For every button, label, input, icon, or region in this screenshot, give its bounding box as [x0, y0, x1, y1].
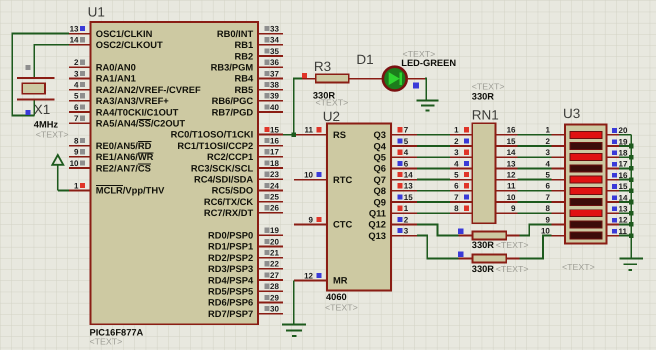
U1 pin 19 (RD0/PSP0) stub + number — [208, 226, 283, 240]
svg-text:1: 1 — [545, 126, 550, 135]
junction node bus row 12 — [629, 222, 634, 227]
svg-text:11: 11 — [507, 182, 516, 191]
svg-text:40: 40 — [270, 103, 279, 112]
resistor network RN1 body — [472, 123, 495, 223]
wire U2 pin12 (MR) to ground — [293, 280, 295, 324]
svg-text:14: 14 — [507, 148, 516, 157]
svg-text:9: 9 — [74, 148, 79, 157]
svg-text:RB6/PGC: RB6/PGC — [212, 96, 254, 106]
wire U3 pin 15 to ground bus — [619, 190, 631, 192]
svg-text:19: 19 — [270, 226, 279, 235]
svg-text:RB4: RB4 — [234, 74, 253, 84]
resistor RA (330R upper) left stub — [459, 235, 473, 237]
svg-text:6: 6 — [545, 182, 550, 191]
junction node RC0/RS — [291, 132, 296, 137]
wire U3 pin 20 to ground bus — [619, 134, 631, 136]
U1 pin 27 (RD4/PSP4) stub + number — [208, 271, 283, 285]
wire U2 Q11 to RN1 pin 8 — [417, 212, 450, 214]
svg-text:<TEXT>: <TEXT> — [90, 337, 123, 347]
RN1 pin 15 stub + number — [496, 137, 518, 146]
junction node bus row 11 — [629, 233, 634, 238]
node indicator D1 cathode (blue) — [413, 82, 419, 88]
svg-text:<TEXT>: <TEXT> — [496, 240, 529, 250]
U2 pin 11 (RS) stub + number — [294, 126, 346, 140]
node indicator OSC2 (gray) — [26, 65, 31, 70]
U2 pin 10 (RTC) stub + number — [294, 171, 353, 185]
svg-text:3: 3 — [404, 227, 409, 236]
svg-text:<TEXT>: <TEXT> — [472, 81, 505, 91]
U3 pin 14 stub + number — [607, 193, 628, 202]
svg-text:6: 6 — [454, 182, 459, 191]
svg-text:14: 14 — [619, 193, 628, 202]
svg-text:15: 15 — [619, 182, 628, 191]
svg-text:16: 16 — [270, 137, 279, 146]
svg-text:17: 17 — [619, 160, 628, 169]
svg-text:15: 15 — [404, 193, 413, 202]
svg-text:9: 9 — [511, 204, 516, 213]
U3 LED bar 10 (off) — [570, 232, 602, 239]
svg-text:<TEXT>: <TEXT> — [316, 98, 349, 108]
svg-text:19: 19 — [619, 137, 628, 146]
U1 pin 16 (RC1/T1OSI/CCP2) stub + number — [177, 137, 283, 151]
wire resistor RA to U3 pin9 — [520, 224, 552, 235]
svg-text:RC5/SDO: RC5/SDO — [212, 186, 254, 196]
svg-text:10: 10 — [304, 171, 313, 180]
svg-text:10: 10 — [541, 227, 550, 236]
overline WR on RE1 name — [138, 152, 154, 154]
svg-text:26: 26 — [270, 204, 279, 213]
svg-text:OSC1/CLKIN: OSC1/CLKIN — [96, 29, 153, 39]
wire RN1 pin 12 to U3 pin 5 — [518, 179, 552, 181]
U1 pin 23 (RC4/SDI/SDA) stub + number — [194, 170, 283, 184]
U1 pin 38 (RB5) stub + number — [234, 81, 283, 95]
wire U2 Q5 to RN1 pin 3 — [417, 156, 450, 158]
U1 pin 29 (RD6/PSP6) stub + number — [208, 293, 283, 307]
wire OSC1: U1 pin13 to crystal bottom — [12, 34, 69, 116]
resistor RB body — [472, 254, 506, 262]
svg-text:Q5: Q5 — [374, 153, 386, 163]
U1 pin 37 (RB4) stub + number — [234, 69, 283, 83]
svg-text:9: 9 — [309, 215, 314, 224]
U3 pin 3 stub + number — [545, 148, 565, 157]
svg-text:14: 14 — [70, 36, 79, 45]
svg-text:RC7/RX/DT: RC7/RX/DT — [204, 208, 254, 218]
svg-text:4: 4 — [404, 148, 409, 157]
svg-text:330R: 330R — [472, 264, 495, 274]
svg-text:7: 7 — [454, 193, 459, 202]
U3 pin 8 stub + number — [545, 204, 565, 213]
svg-text:5: 5 — [404, 137, 409, 146]
svg-text:<TEXT>: <TEXT> — [562, 262, 595, 272]
svg-text:2: 2 — [454, 137, 459, 146]
svg-text:U1: U1 — [88, 5, 105, 20]
U2 pin 6 (Q6) stub + number — [374, 159, 417, 173]
svg-text:30: 30 — [270, 305, 279, 314]
RN1 pin 2 stub + number — [450, 137, 472, 146]
svg-text:RB3/PGM: RB3/PGM — [211, 63, 254, 73]
svg-text:7: 7 — [545, 193, 550, 202]
svg-text:15: 15 — [270, 125, 279, 134]
wire U2 Q9 to RN1 pin 7 — [417, 201, 450, 203]
svg-text:10: 10 — [70, 159, 79, 168]
svg-text:6: 6 — [404, 159, 409, 168]
U3 pin 15 stub + number — [607, 182, 628, 191]
svg-text:27: 27 — [270, 271, 279, 280]
U3 pin 16 stub + number — [607, 171, 628, 180]
U3 pin 11 stub + number — [607, 227, 628, 236]
U2 pin 13 (Q8) stub + number — [374, 182, 417, 196]
svg-text:RD6/PSP6: RD6/PSP6 — [208, 298, 253, 308]
svg-text:12: 12 — [507, 171, 516, 180]
svg-text:20: 20 — [270, 237, 279, 246]
svg-text:Q7: Q7 — [374, 175, 386, 185]
resistor R3 body — [316, 74, 349, 82]
U3 LED bar 4 (off) — [570, 165, 602, 172]
RN1 pin 5 stub + number — [450, 171, 472, 180]
U3 pin 19 stub + number — [607, 137, 628, 146]
junction node bus row 14 — [629, 200, 634, 205]
U3 LED bar 9 (off) — [570, 221, 602, 228]
LED D1 body — [383, 67, 407, 91]
U1 pin 14 (OSC2/CLKOUT) stub + number — [69, 36, 163, 50]
svg-text:RN1: RN1 — [472, 108, 499, 123]
wire resistor RB to U3 pin10 — [520, 236, 552, 259]
svg-text:36: 36 — [270, 58, 279, 67]
svg-text:11: 11 — [619, 227, 628, 236]
svg-text:4: 4 — [74, 81, 79, 90]
svg-text:U3: U3 — [563, 106, 580, 121]
resistor R3 left stub — [302, 78, 316, 80]
wire U3 pin 19 to ground bus — [619, 145, 631, 147]
D1 cathode stub — [407, 78, 425, 80]
node indicator RA left (blue) — [458, 229, 463, 234]
svg-text:Q3: Q3 — [374, 130, 386, 140]
U1 pin 25 (RC6/TX/CK) stub + number — [204, 193, 283, 207]
svg-text:29: 29 — [270, 293, 279, 302]
svg-text:330R: 330R — [472, 240, 495, 250]
U2 pin 7 (Q3) stub + number — [374, 126, 417, 140]
svg-text:16: 16 — [619, 171, 628, 180]
svg-text:2: 2 — [74, 58, 79, 67]
U3 LED bar 6 (on) — [570, 187, 602, 194]
wire power arrow to U1 pin1 — [58, 189, 69, 191]
U2 pin 9 (CTC) stub + number — [294, 215, 353, 229]
power symbol (up arrow) to MCLR — [52, 155, 63, 190]
wire U3 pin 18 to ground bus — [619, 156, 631, 158]
svg-text:RC6/TX/CK: RC6/TX/CK — [204, 197, 254, 207]
svg-text:16: 16 — [507, 126, 516, 135]
svg-text:R3: R3 — [314, 59, 331, 74]
svg-text:20: 20 — [619, 126, 628, 135]
U1 pin 6 (RA4/T0CKI/C1OUT) stub + number — [69, 103, 179, 117]
resistor RB (330R lower) left stub — [459, 258, 473, 260]
svg-text:RC3/SCK/SCL: RC3/SCK/SCL — [191, 163, 254, 173]
svg-text:RD7/PSP7: RD7/PSP7 — [208, 309, 253, 319]
wire RN1 pin 10 to U3 pin 7 — [518, 201, 552, 203]
ground symbol right — [620, 258, 643, 269]
U1 pin 28 (RD5/PSP5) stub + number — [208, 282, 283, 296]
svg-text:RC2/CCP1: RC2/CCP1 — [207, 152, 253, 162]
svg-text:35: 35 — [270, 47, 279, 56]
svg-text:2: 2 — [545, 137, 550, 146]
RN1 pin 12 stub + number — [496, 171, 518, 180]
svg-text:RD1/PSP1: RD1/PSP1 — [208, 242, 253, 252]
wire R3 left to node RC0 (vertical) — [294, 79, 302, 135]
svg-text:RB7/PGD: RB7/PGD — [212, 107, 254, 117]
svg-text:37: 37 — [270, 69, 279, 78]
svg-text:Q13: Q13 — [368, 231, 386, 241]
U2 pin 15 (Q9) stub + number — [374, 193, 417, 207]
U3 LED bar 1 (on) — [570, 131, 602, 138]
svg-text:<TEXT>: <TEXT> — [36, 130, 69, 140]
svg-text:RD5/PSP5: RD5/PSP5 — [208, 287, 253, 297]
U1 pin 3 (RA1/AN1) stub + number — [69, 69, 136, 83]
U1 pin 21 (RD2/PSP2) stub + number — [208, 249, 283, 263]
wire U3 pin 11 to ground bus — [619, 235, 631, 237]
U1 pin 7 (RA5/AN4/SS/C2OUT) stub + number — [69, 114, 185, 128]
wire D1 cathode to ground — [425, 79, 426, 101]
U1 pin 35 (RB2) stub + number — [234, 47, 283, 61]
svg-text:3: 3 — [545, 148, 550, 157]
svg-text:13: 13 — [70, 25, 79, 34]
node indicator R3 left (red) — [302, 73, 307, 78]
U3 pin 10 stub + number — [541, 227, 565, 236]
junction node bus row 19 — [629, 144, 634, 149]
svg-text:RB1: RB1 — [234, 40, 253, 50]
svg-text:RA1/AN1: RA1/AN1 — [96, 74, 136, 84]
wire U2 Q8 to RN1 pin 6 — [417, 190, 450, 192]
svg-text:RE0/AN5/RD: RE0/AN5/RD — [96, 141, 152, 151]
svg-text:RC4/SDI/SDA: RC4/SDI/SDA — [194, 175, 253, 185]
svg-text:RA4/T0CKI/C1OUT: RA4/T0CKI/C1OUT — [96, 107, 179, 117]
U3 pin 12 stub + number — [607, 216, 628, 225]
U1 pin 18 (RC3/SCK/SCL) stub + number — [191, 159, 283, 173]
svg-text:4060: 4060 — [326, 292, 347, 302]
svg-text:8: 8 — [545, 204, 550, 213]
U3 pin 4 stub + number — [545, 159, 565, 168]
svg-text:RD2/PSP2: RD2/PSP2 — [208, 253, 253, 263]
wire OSC2: U1 pin14 to crystal top — [34, 45, 69, 78]
svg-text:39: 39 — [270, 92, 279, 101]
svg-text:11: 11 — [305, 126, 314, 135]
svg-text:Q4: Q4 — [374, 141, 387, 151]
svg-text:3: 3 — [74, 69, 79, 78]
U3 pin 7 stub + number — [545, 193, 565, 202]
IC U2 body (4060 counter) — [327, 123, 391, 290]
U3 LED bar 2 (off) — [570, 143, 602, 150]
junction node bus row 16 — [629, 177, 634, 182]
U1 pin 13 (OSC1/CLKIN) stub + number — [69, 25, 153, 39]
U2 pin 1 (Q11) stub + number — [369, 204, 417, 218]
svg-text:24: 24 — [270, 181, 279, 190]
svg-text:33: 33 — [270, 25, 279, 34]
svg-text:7: 7 — [404, 126, 409, 135]
node indicator RB left (blue) — [458, 252, 463, 257]
U1 pin 9 (RE1/AN6/WR) stub + number — [69, 148, 154, 162]
U3 LED bar 7 (off) — [570, 199, 602, 206]
wire U3 pin 13 to ground bus — [619, 212, 631, 214]
svg-text:28: 28 — [270, 282, 279, 291]
U1 pin 40 (RB7/PGD) stub + number — [212, 103, 283, 117]
U1 pin 34 (RB1) stub + number — [234, 36, 283, 50]
U1 pin 36 (RB3/PGM) stub + number — [211, 58, 283, 72]
svg-text:Q8: Q8 — [374, 186, 386, 196]
overline CS on RE2 name — [138, 163, 151, 165]
svg-text:15: 15 — [507, 137, 516, 146]
resistor RA right stub — [506, 235, 519, 237]
wire U2 Q4 to RN1 pin 2 — [417, 145, 450, 147]
svg-text:1: 1 — [404, 204, 409, 213]
svg-text:1: 1 — [454, 126, 459, 135]
svg-text:12: 12 — [304, 271, 313, 280]
svg-text:5: 5 — [454, 171, 459, 180]
svg-text:MCLR/Vpp/THV: MCLR/Vpp/THV — [96, 186, 165, 196]
U3 pin 5 stub + number — [545, 171, 565, 180]
svg-text:RS: RS — [333, 130, 346, 140]
U1 pin 15 (RC0/T1OSO/T1CKI) stub + number — [171, 125, 283, 139]
svg-text:RA3/AN3/VREF+: RA3/AN3/VREF+ — [96, 96, 169, 106]
svg-text:<TEXT>: <TEXT> — [496, 264, 529, 274]
wire U3 pin 17 to ground bus — [619, 167, 631, 169]
U1 pin 8 (RE0/AN5/RD) stub + number — [69, 137, 152, 151]
svg-text:RC0/T1OSO/T1CKI: RC0/T1OSO/T1CKI — [171, 130, 254, 140]
crystal X1 bottom plate — [17, 99, 55, 101]
svg-text:13: 13 — [507, 159, 516, 168]
svg-text:CTC: CTC — [333, 220, 352, 230]
wire U2 Q7 to RN1 pin 5 — [417, 179, 450, 181]
svg-text:RB0/INT: RB0/INT — [217, 29, 254, 39]
RN1 pin 14 stub + number — [496, 148, 518, 157]
ground symbol at D1 — [417, 101, 439, 111]
svg-text:D1: D1 — [356, 52, 373, 67]
U3 pin 20 stub + number — [607, 126, 628, 135]
wire U3 pin 12 to ground bus — [619, 223, 631, 225]
svg-text:22: 22 — [270, 260, 279, 269]
svg-text:21: 21 — [270, 249, 279, 258]
U3 LED bar 3 (on) — [570, 154, 602, 161]
U1 pin 33 (RB0/INT) stub + number — [217, 25, 283, 39]
RN1 pin 8 stub + number — [450, 204, 472, 213]
svg-text:4MHz: 4MHz — [34, 120, 59, 130]
LED bargraph U3 body — [565, 125, 607, 244]
svg-text:38: 38 — [270, 81, 279, 90]
U1 pin 39 (RB6/PGC) stub + number — [212, 92, 283, 106]
svg-text:23: 23 — [270, 170, 279, 179]
svg-text:8: 8 — [454, 204, 459, 213]
wire RN1 pin 15 to U3 pin 2 — [518, 145, 552, 147]
svg-text:MR: MR — [333, 276, 348, 286]
svg-text:Q11: Q11 — [369, 209, 386, 219]
wire U2 Q13 to resistor RB — [417, 236, 459, 259]
U3 pin 9 stub + number — [545, 215, 565, 224]
svg-text:13: 13 — [404, 182, 413, 191]
wire U1 pin15 to U2 pin11 (RS) — [283, 134, 294, 136]
wire/stub R3 right to D1 anode — [349, 78, 383, 80]
U3 pin 13 stub + number — [607, 205, 628, 214]
overline MCLR on pin 1 name — [96, 185, 123, 187]
junction node bus row 17 — [629, 166, 634, 171]
svg-text:9: 9 — [545, 215, 550, 224]
wire U3 pin 14 to ground bus — [619, 201, 631, 203]
RN1 pin 10 stub + number — [496, 193, 518, 202]
U1 pin 22 (RD3/PSP3) stub + number — [208, 260, 283, 274]
U1 pin 4 (RA2/AN2/VREF-/CVREF) stub + number — [69, 81, 201, 95]
svg-text:5: 5 — [74, 92, 79, 101]
junction node bus row 15 — [629, 189, 634, 194]
U1 pin 1 (MCLR/Vpp/THV) stub + number — [69, 181, 165, 195]
svg-text:1: 1 — [74, 181, 79, 190]
svg-text:<TEXT>: <TEXT> — [325, 302, 358, 312]
svg-text:Q6: Q6 — [374, 164, 386, 174]
svg-text:LED-GREEN: LED-GREEN — [401, 58, 456, 68]
U3 pin 17 stub + number — [607, 160, 628, 169]
svg-text:U2: U2 — [323, 109, 340, 124]
svg-text:OSC2/CLKOUT: OSC2/CLKOUT — [96, 40, 163, 50]
svg-text:18: 18 — [270, 159, 279, 168]
svg-text:RE2/AN7/CS: RE2/AN7/CS — [96, 163, 151, 173]
RN1 pin 3 stub + number — [450, 148, 472, 157]
RN1 pin 11 stub + number — [496, 182, 518, 191]
svg-text:RC1/T1OSI/CCP2: RC1/T1OSI/CCP2 — [177, 141, 253, 151]
RN1 pin 16 stub + number — [496, 126, 518, 135]
RN1 pin 4 stub + number — [450, 159, 472, 168]
svg-text:RE1/AN6/WR: RE1/AN6/WR — [96, 152, 154, 162]
wire U2 Q6 to RN1 pin 4 — [417, 167, 450, 169]
svg-text:Q9: Q9 — [374, 197, 386, 207]
svg-text:7: 7 — [74, 114, 79, 123]
svg-text:5: 5 — [545, 171, 550, 180]
svg-text:10: 10 — [507, 193, 516, 202]
svg-text:RD4/PSP4: RD4/PSP4 — [208, 275, 254, 285]
svg-text:RA2/AN2/VREF-/CVREF: RA2/AN2/VREF-/CVREF — [96, 85, 201, 95]
svg-text:X1: X1 — [34, 102, 51, 117]
U3 pin 18 stub + number — [607, 149, 628, 158]
U2 pin 4 (Q5) stub + number — [374, 148, 417, 162]
svg-text:4: 4 — [545, 159, 550, 168]
RN1 pin 1 stub + number — [450, 126, 472, 135]
svg-text:3: 3 — [454, 148, 459, 157]
RN1 pin 6 stub + number — [450, 182, 472, 191]
U1 pin 20 (RD1/PSP1) stub + number — [208, 237, 283, 251]
svg-text:12: 12 — [619, 216, 628, 225]
svg-text:330R: 330R — [472, 91, 495, 101]
U2 pin 3 (Q13) stub + number — [368, 227, 417, 241]
RN1 pin 13 stub + number — [496, 159, 518, 168]
wire U3 pin 16 to ground bus — [619, 179, 631, 181]
wire RN1 pin 16 to U3 pin 1 — [518, 134, 552, 136]
U2 pin 5 (Q4) stub + number — [374, 137, 417, 151]
U1 pin 30 (RD7/PSP7) stub + number — [208, 305, 283, 319]
wire RN1 pin 9 to U3 pin 8 — [518, 212, 552, 214]
wire RN1 pin 14 to U3 pin 3 — [518, 156, 552, 158]
U1 pin 5 (RA3/AN3/VREF+) stub + number — [69, 92, 169, 106]
resistor RA body — [472, 231, 506, 239]
svg-text:RTC: RTC — [333, 175, 352, 185]
svg-text:RD3/PSP3: RD3/PSP3 — [208, 264, 253, 274]
overline RD on RE0 name — [138, 141, 151, 143]
svg-text:Q12: Q12 — [368, 220, 386, 230]
svg-text:34: 34 — [270, 36, 279, 45]
svg-text:14: 14 — [404, 171, 413, 180]
svg-text:RA5/AN4/SS/C2OUT: RA5/AN4/SS/C2OUT — [96, 119, 186, 129]
crystal X1 body — [22, 83, 45, 94]
U3 LED bar 5 (on) — [570, 176, 602, 183]
svg-text:18: 18 — [619, 149, 628, 158]
wire RN1 pin 13 to U3 pin 4 — [518, 167, 552, 169]
node indicator OSC1 (blue) — [26, 110, 31, 115]
U3 LED bar 8 (on) — [570, 210, 602, 217]
svg-text:17: 17 — [270, 148, 279, 157]
